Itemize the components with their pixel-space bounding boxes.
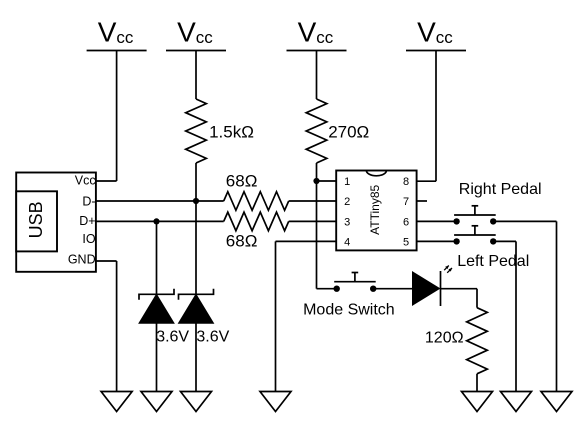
svg-text:68Ω: 68Ω — [226, 171, 258, 190]
svg-text:1.5kΩ: 1.5kΩ — [209, 122, 254, 141]
svg-text:6: 6 — [403, 216, 409, 228]
svg-text:GND: GND — [68, 252, 96, 266]
svg-text:270Ω: 270Ω — [328, 122, 369, 141]
svg-text:ATTiny85: ATTiny85 — [368, 184, 382, 234]
svg-text:4: 4 — [344, 236, 350, 248]
svg-text:3: 3 — [344, 216, 350, 228]
svg-text:68Ω: 68Ω — [226, 231, 258, 250]
svg-text:120Ω: 120Ω — [425, 330, 464, 347]
svg-text:3.6V: 3.6V — [156, 328, 189, 345]
svg-text:USB: USB — [26, 201, 46, 238]
svg-text:D+: D+ — [79, 214, 95, 228]
svg-text:IO: IO — [82, 232, 95, 246]
svg-text:Vcc: Vcc — [177, 17, 213, 48]
svg-text:Right Pedal: Right Pedal — [459, 181, 542, 198]
svg-text:Mode Switch: Mode Switch — [303, 301, 395, 318]
svg-text:8: 8 — [403, 176, 409, 188]
svg-text:Vcc: Vcc — [417, 17, 453, 48]
svg-text:3.6V: 3.6V — [196, 328, 229, 345]
svg-text:1: 1 — [344, 176, 350, 188]
svg-text:Vcc: Vcc — [298, 17, 334, 48]
svg-text:Left Pedal: Left Pedal — [457, 253, 529, 270]
svg-text:Vcc: Vcc — [75, 173, 96, 187]
svg-text:2: 2 — [344, 196, 350, 208]
svg-text:5: 5 — [403, 236, 409, 248]
svg-text:Vcc: Vcc — [98, 17, 134, 48]
svg-text:7: 7 — [403, 196, 409, 208]
svg-text:D-: D- — [82, 194, 95, 208]
